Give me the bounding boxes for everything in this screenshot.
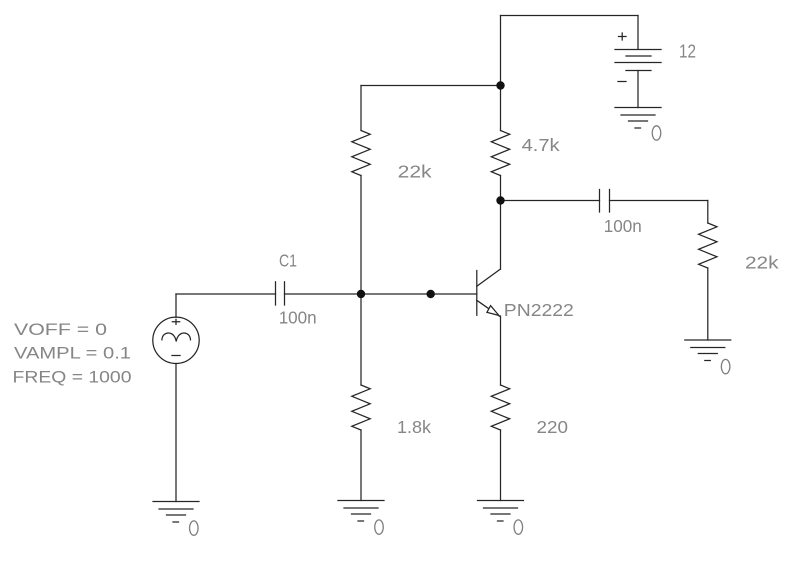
transistor Q1 PN2222 [477,269,501,316]
svg-text:C1: C1 [279,251,297,271]
wire 22k load to ground [707,268,709,340]
wire source bottom vertical [175,364,177,502]
resistor 1.8k lower bias [352,385,370,430]
label 0 ground battery [652,126,661,140]
wire 1.8k to ground [360,430,362,501]
svg-text:FREQ = 1000: FREQ = 1000 [13,368,132,386]
wire source to C1 [176,293,276,295]
svg-text:12: 12 [679,42,696,62]
svg-text:PN2222: PN2222 [504,300,574,320]
resistor 4.7k collector [491,131,509,176]
wire 220 to ground [500,430,502,501]
voltage source VSIN [153,317,199,363]
svg-text:100n: 100n [604,216,642,236]
label battery minus [618,81,626,83]
svg-text:1.8k: 1.8k [397,417,431,437]
wire load corner vertical [707,201,709,224]
wire collector net vertical top [500,16,502,131]
wire emitter vertical [500,316,502,385]
wire bias top horizontal [361,85,501,87]
wire bias upper vertical [360,86,362,131]
wire battery bottom vertical [637,71,639,108]
capacitor C1 [276,282,285,305]
svg-text:22k: 22k [745,253,779,273]
svg-text:220: 220 [537,417,569,437]
wire 4.7k to collector node [500,176,502,270]
svg-text:4.7k: 4.7k [522,135,560,155]
wire top horizontal Vcc [501,15,639,17]
ground load [685,340,731,361]
wire output cap to load corner [610,200,708,202]
label source plus [172,319,179,324]
ground 1.8k [338,501,384,522]
svg-text:100n: 100n [279,308,317,328]
node base divider junction [357,290,365,298]
svg-text:VAMPL = 0.1: VAMPL = 0.1 [14,344,131,362]
label battery plus [619,33,627,40]
resistor 22k upper bias [352,131,370,176]
label source minus [172,355,180,357]
node collector output junction [496,196,504,204]
label 0 ground load [721,359,730,373]
node Vcc junction [496,81,504,89]
ground source [153,502,199,523]
battery V1 12V [615,50,661,71]
wire base node to transistor [361,293,477,295]
label 0 ground source [190,521,199,535]
wire C1 to base node [285,293,362,295]
node base wire junction [427,290,435,298]
wire source top vertical [175,294,177,317]
wire base node to 1.8k [360,294,362,385]
ground 220 [478,501,524,522]
ground battery [615,108,661,129]
capacitor output 100n [600,190,610,213]
wire battery top vertical [637,16,639,50]
resistor 22k load [699,223,717,268]
wire below 22k to base node [360,176,362,295]
svg-text:22k: 22k [398,162,432,182]
label 0 ground 1.8k [375,520,384,534]
wire collector node to output cap [501,200,600,202]
label 0 ground 220 [514,520,523,534]
svg-text:VOFF = 0: VOFF = 0 [14,321,107,339]
resistor 220 emitter [491,385,509,430]
